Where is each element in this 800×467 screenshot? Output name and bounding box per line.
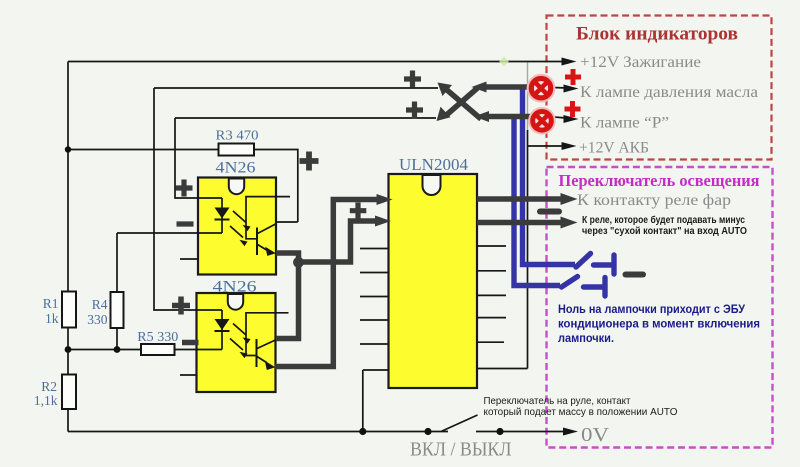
svg-text:4N26: 4N26	[216, 160, 256, 177]
svg-text:К лампе давления масла: К лампе давления масла	[580, 84, 758, 101]
svg-text:через "сухой контакт" на вход: через "сухой контакт" на вход AUTO	[582, 226, 747, 237]
svg-text:Переключатель освещения: Переключатель освещения	[559, 171, 760, 190]
svg-text:Блок индикаторов: Блок индикаторов	[576, 24, 738, 45]
svg-text:330: 330	[87, 312, 108, 327]
svg-text:1k: 1k	[45, 311, 59, 326]
svg-text:К контакту реле фар: К контакту реле фар	[577, 192, 731, 209]
svg-text:+12V Зажигание: +12V Зажигание	[580, 54, 701, 71]
svg-text:К реле, которое будет подавать: К реле, которое будет подавать минус	[582, 214, 745, 226]
svg-text:+12V АКБ: +12V АКБ	[579, 140, 649, 157]
svg-text:К лампе “Р”: К лампе “Р”	[580, 115, 669, 132]
svg-text:R4: R4	[92, 297, 108, 312]
svg-text:кондиционера в момент включен: кондиционера в момент включения	[558, 317, 760, 331]
svg-text:R5 330: R5 330	[137, 330, 178, 345]
svg-text:R1: R1	[43, 296, 59, 311]
svg-text:1,1k: 1,1k	[34, 393, 58, 408]
svg-text:4N26: 4N26	[213, 279, 257, 296]
svg-text:R2: R2	[41, 379, 57, 394]
svg-text:R3 470: R3 470	[216, 129, 259, 144]
svg-text:который подает массу в положен: который подает массу в положении AUTO	[484, 406, 678, 418]
svg-text:0V: 0V	[581, 424, 610, 446]
svg-text:Ноль на лампочки приходит с ЭБ: Ноль на лампочки приходит с ЭБУ	[558, 302, 745, 316]
svg-text:ВКЛ / ВЫКЛ: ВКЛ / ВЫКЛ	[410, 439, 512, 461]
svg-text:ULN2004: ULN2004	[399, 155, 468, 174]
svg-text:лампочки.: лампочки.	[558, 331, 614, 345]
